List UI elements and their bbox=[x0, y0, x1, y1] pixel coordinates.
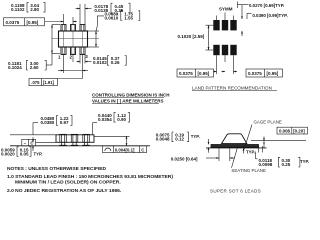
svg-text:TYP.: TYP. bbox=[300, 159, 309, 164]
svg-text:0.0390 [0.99]TYP.: 0.0390 [0.99]TYP. bbox=[252, 13, 287, 18]
svg-text:0.97: 0.97 bbox=[60, 120, 69, 125]
svg-text:[0.95]: [0.95] bbox=[267, 71, 279, 76]
svg-text:VALUES IN [ ] ARE MILLIME: VALUES IN [ ] ARE MILLIMETERS bbox=[92, 99, 164, 104]
svg-text:0.0375: 0.0375 bbox=[248, 71, 262, 76]
svg-text:[0.95]: [0.95] bbox=[198, 71, 210, 76]
svg-text:[0.95]: [0.95] bbox=[27, 20, 39, 25]
svg-text:–: – bbox=[24, 141, 27, 146]
svg-text:CONTROLLING DIMENSION IS IN: CONTROLLING DIMENSION IS INCH bbox=[92, 93, 170, 98]
svg-text:GAGE PLANE: GAGE PLANE bbox=[254, 119, 282, 124]
svg-text:SEATING PLANE: SEATING PLANE bbox=[231, 168, 266, 173]
svg-text:0.0020: 0.0020 bbox=[1, 151, 15, 156]
svg-text:1.55: 1.55 bbox=[124, 15, 133, 20]
svg-text:0.0610: 0.0610 bbox=[105, 15, 119, 20]
svg-text:3: 3 bbox=[85, 54, 88, 59]
svg-text:0.26: 0.26 bbox=[111, 60, 120, 65]
svg-text:1: 1 bbox=[58, 55, 61, 60]
svg-text:0.004[0.1]: 0.004[0.1] bbox=[115, 148, 135, 153]
svg-text:C: C bbox=[141, 148, 144, 153]
svg-text:2.80: 2.80 bbox=[30, 7, 39, 12]
svg-text:0.05: 0.05 bbox=[20, 151, 29, 156]
svg-text:SYMM: SYMM bbox=[219, 6, 233, 11]
svg-text:.075: .075 bbox=[31, 80, 40, 85]
svg-text:TYP.: TYP. bbox=[246, 149, 255, 154]
svg-text:[1.91]: [1.91] bbox=[43, 80, 55, 85]
svg-text:NOTES : UNLESS OTHERWISE SPECI: NOTES : UNLESS OTHERWISE SPECIFIED bbox=[7, 166, 107, 172]
svg-text:2.0 NO JEDEC REGISTRATION AS O: 2.0 NO JEDEC REGISTRATION AS OF JULY 198… bbox=[7, 188, 122, 194]
svg-text:0.0250 [0.64]: 0.0250 [0.64] bbox=[171, 156, 198, 161]
svg-text:[0.20]: [0.20] bbox=[293, 129, 305, 134]
svg-text:0.0102: 0.0102 bbox=[93, 60, 107, 65]
svg-text:0.0354: 0.0354 bbox=[98, 117, 112, 122]
svg-text:1.0 STANDARD LEAD FINISH : 150: 1.0 STANDARD LEAD FINISH : 150 MICROINCH… bbox=[7, 174, 173, 180]
svg-text:0.0270 [0.69]TYP.: 0.0270 [0.69]TYP. bbox=[249, 3, 284, 8]
svg-text:2.60: 2.60 bbox=[30, 65, 39, 70]
svg-text:0.0048: 0.0048 bbox=[156, 137, 170, 142]
svg-text:0.1020 [2.59]: 0.1020 [2.59] bbox=[178, 34, 205, 39]
svg-text:0.0380: 0.0380 bbox=[41, 120, 55, 125]
svg-text:TYP.: TYP. bbox=[34, 151, 43, 156]
svg-text:0.90: 0.90 bbox=[117, 117, 126, 122]
svg-text:LAND PATTERN RECOMMENDATION: LAND PATTERN RECOMMENDATION bbox=[192, 86, 272, 91]
svg-text:0.0375: 0.0375 bbox=[6, 20, 20, 25]
svg-text:2: 2 bbox=[70, 55, 73, 60]
svg-text:0.12: 0.12 bbox=[175, 137, 184, 142]
svg-text:0.0098: 0.0098 bbox=[259, 162, 273, 167]
svg-text:SUPER SOT 6 LEADS: SUPER SOT 6 LEADS bbox=[210, 188, 261, 193]
svg-text:MINIMUM TIN / LEAD (SOLDER) ON: MINIMUM TIN / LEAD (SOLDER) ON COPPER. bbox=[15, 179, 121, 185]
svg-text:0.0375: 0.0375 bbox=[179, 71, 193, 76]
svg-text:0.1102: 0.1102 bbox=[11, 7, 25, 12]
svg-text:C: C bbox=[30, 141, 34, 146]
svg-text:0.25: 0.25 bbox=[282, 162, 291, 167]
svg-text:0.008: 0.008 bbox=[279, 129, 291, 134]
svg-text:0.1024: 0.1024 bbox=[8, 65, 22, 70]
svg-text:TYP.: TYP. bbox=[191, 134, 200, 139]
